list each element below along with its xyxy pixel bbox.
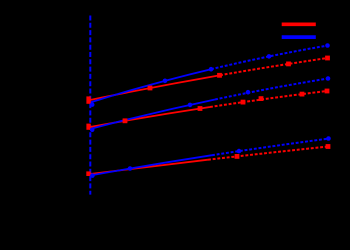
start marker blue circle group A bbox=[90, 102, 95, 107]
data marker blue circle A1 bbox=[163, 79, 168, 84]
curve B blue solid segment bbox=[90, 100, 215, 130]
end marker red square B bbox=[325, 89, 330, 94]
data marker red square B3 bbox=[241, 100, 246, 105]
curve B red dashed segment bbox=[210, 91, 327, 107]
start marker red square group A bbox=[86, 96, 90, 103]
data marker red square B2b bbox=[259, 96, 264, 101]
data marker blue circle B1 bbox=[188, 103, 193, 108]
curve C blue solid segment bbox=[90, 155, 212, 175]
data marker red square B4 bbox=[300, 92, 305, 97]
data marker red square A1 bbox=[148, 86, 153, 91]
end marker red square A bbox=[325, 56, 330, 61]
end marker blue circle A bbox=[325, 43, 330, 48]
data marker red square B1 bbox=[123, 118, 128, 123]
data marker blue circle C2 bbox=[237, 149, 242, 154]
curve B blue dashed segment bbox=[215, 79, 328, 100]
curve C blue dashed segment bbox=[212, 139, 329, 156]
curve A blue dashed segment bbox=[211, 46, 328, 70]
end marker blue circle C bbox=[326, 136, 331, 141]
start marker red square group C bbox=[86, 171, 90, 176]
start marker blue circle group B bbox=[90, 128, 95, 133]
legend red line sample bbox=[282, 22, 316, 26]
data marker blue circle B2 bbox=[246, 90, 251, 95]
curve A red dashed segment bbox=[220, 58, 328, 75]
start marker red square group B bbox=[86, 124, 90, 130]
data marker red square B2 bbox=[198, 106, 203, 111]
curve C red solid segment bbox=[90, 160, 208, 174]
curve C red dashed segment bbox=[208, 147, 328, 160]
data marker blue circle C1 bbox=[128, 166, 133, 171]
legend blue line sample bbox=[282, 35, 316, 39]
data marker blue circle A3 bbox=[267, 54, 272, 59]
start marker blue circle group C bbox=[90, 173, 95, 178]
vertical dashed blue reference line at x=90 bbox=[89, 16, 91, 195]
data marker blue circle A2 bbox=[209, 67, 214, 72]
data marker red square A3 bbox=[286, 62, 291, 67]
data marker red square C1 bbox=[235, 154, 240, 159]
data marker red square A2 bbox=[217, 73, 222, 78]
curve A red solid segment bbox=[90, 75, 220, 100]
end marker blue circle B bbox=[326, 76, 331, 81]
end marker red square C bbox=[326, 144, 331, 149]
curve A blue solid segment bbox=[90, 69, 211, 102]
curve B red solid segment bbox=[90, 107, 210, 127]
